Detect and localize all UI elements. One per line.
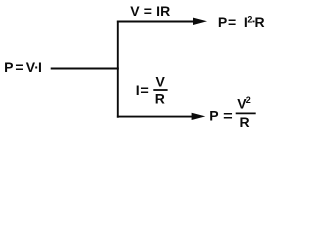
svg-text:P = V·I: P = V·I	[4, 59, 41, 75]
fraction bar of P=V²/R	[236, 112, 256, 114]
svg-text:R: R	[155, 91, 165, 107]
svg-text:=: =	[140, 82, 148, 98]
svg-text:2: 2	[246, 95, 251, 105]
svg-text:V = IR: V = IR	[130, 3, 170, 19]
svg-text:P: P	[209, 108, 218, 124]
wire: horizontal from P=VI to junction	[51, 68, 119, 70]
svg-text:V: V	[156, 74, 166, 90]
wire: bottom arrow shaft	[117, 116, 192, 118]
wire: vertical branch line	[117, 21, 119, 118]
multiplication dot after I²	[253, 21, 255, 23]
svg-text:=: =	[223, 108, 233, 124]
svg-text:I: I	[136, 82, 140, 98]
svg-text:R: R	[240, 114, 250, 130]
svg-text:=: =	[228, 14, 236, 30]
svg-text:2: 2	[247, 14, 252, 24]
arrowhead of top arrow	[193, 18, 207, 25]
svg-text:R: R	[255, 14, 265, 30]
fraction bar of I=V/R	[153, 89, 167, 91]
arrowhead of bottom arrow	[192, 113, 206, 120]
svg-text:P: P	[218, 14, 227, 30]
wire: top arrow shaft	[117, 21, 194, 23]
